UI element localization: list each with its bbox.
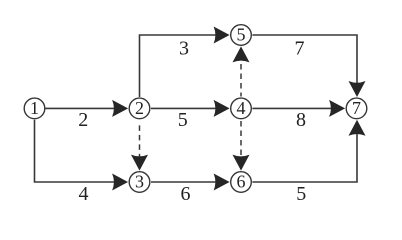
wire edge 1→3 (down then right) [35,120,126,182]
node 4 [231,98,252,119]
wire edge 2→5 (up then right) [140,35,227,97]
svg-text:3: 3 [179,37,189,59]
svg-text:4: 4 [79,183,89,205]
svg-text:5: 5 [237,25,246,45]
label weight 5 (edge 6→7) [296,183,306,205]
label weight 8 (edge 4→7) [296,109,306,131]
label weight 2 (edge 1→2) [78,109,88,131]
arrowhead into node 3 from above [131,155,148,171]
node 2 [129,98,150,119]
label weight 7 (edge 5→7) [295,37,305,59]
wire edge 1→2 [46,107,126,109]
svg-text:1: 1 [30,98,39,118]
arrowhead into node 5 from left [214,27,230,44]
label weight 6 (edge 3→6) [181,183,191,205]
svg-text:2: 2 [135,98,144,118]
arrowhead into node 4 [214,100,230,117]
node 1 [24,98,45,119]
svg-text:4: 4 [237,98,246,118]
arrowhead into node 6 from left [214,174,230,191]
wire edge 3→6 [151,181,227,183]
svg-text:5: 5 [296,183,306,205]
svg-text:2: 2 [78,109,88,131]
node 6 [231,172,252,193]
svg-text:7: 7 [295,37,305,59]
wire edge 2→4 [151,107,227,109]
node 5 [231,25,252,46]
node 3 [129,172,150,193]
svg-text:6: 6 [237,172,246,192]
wire edge 4→7 [252,107,342,109]
svg-text:6: 6 [181,183,191,205]
arrowhead into node 2 [112,100,128,117]
arrowhead into node 5 from below [233,46,250,62]
dashed wire edge 4→6 [240,121,242,159]
arrowhead into node 6 from above [233,155,250,171]
svg-text:5: 5 [178,109,188,131]
label weight 5 (edge 2→4) [178,109,188,131]
label weight 4 (edge 1→3) [79,183,89,205]
dashed wire edge 4→5 [240,64,242,97]
wire edge 5→7 (right then down) [252,35,357,94]
arrowhead into node 3 from left [112,174,128,191]
wire edge 6→7 (right then up) [252,123,357,182]
arrowhead into node 7 from top [349,81,366,97]
svg-text:8: 8 [296,109,306,131]
dashed wire edge 2→3 [139,125,141,158]
node 7 [346,98,367,119]
svg-text:7: 7 [352,98,361,118]
arrowhead into node 7 from below [349,120,366,136]
label weight 3 (edge 2→5) [179,37,189,59]
svg-text:3: 3 [135,172,144,192]
arrowhead into node 7 from left [329,100,345,117]
